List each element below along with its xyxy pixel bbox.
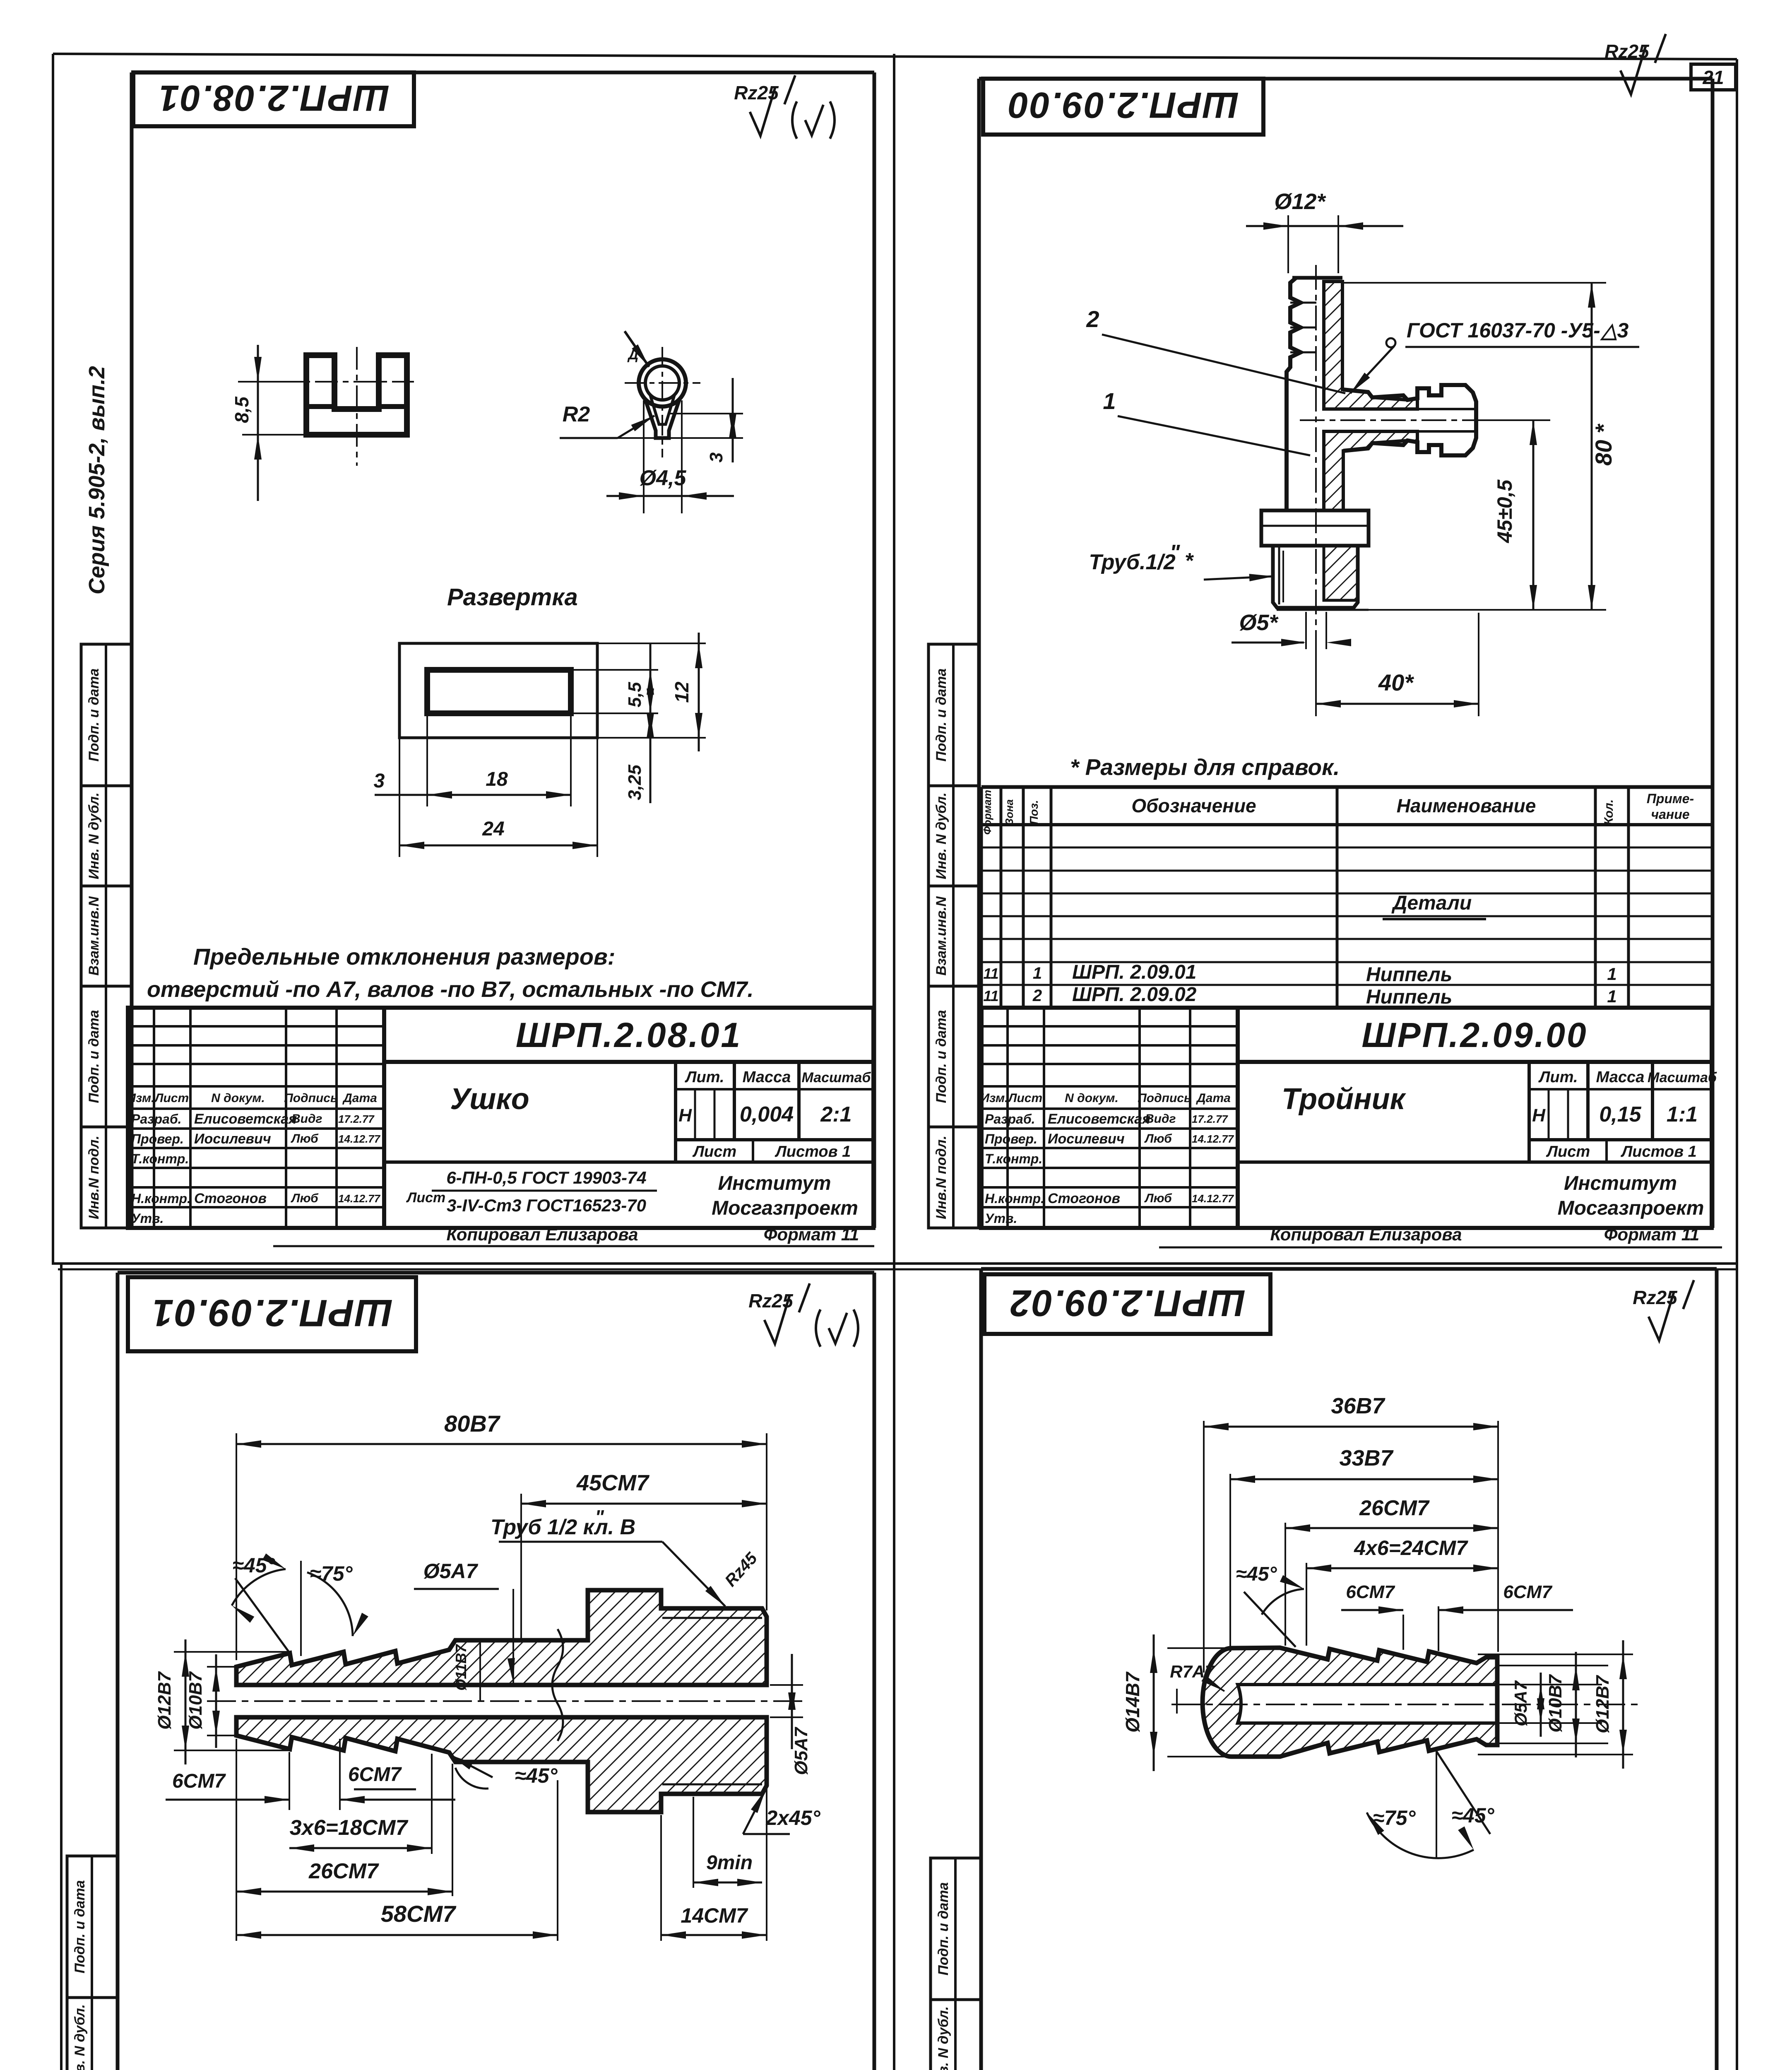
svg-text:Масса: Масса	[743, 1069, 791, 1086]
svg-text:△3: △3	[1600, 319, 1628, 342]
svg-text:Иосилевич: Иосилевич	[1048, 1131, 1125, 1147]
svg-text:Разраб.: Разраб.	[131, 1112, 182, 1126]
svg-text:ШРП.2.09.02: ШРП.2.09.02	[1009, 1282, 1245, 1324]
svg-text:Инв.N подл.: Инв.N подл.	[86, 1136, 102, 1219]
svg-text:Д: Д	[627, 347, 639, 363]
stamp box ШРП.2.08.01 rotated	[133, 72, 414, 126]
svg-text:ШРП.2.09.00: ШРП.2.09.00	[1361, 1016, 1588, 1054]
svg-text:Ниппель: Ниппель	[1366, 986, 1452, 1008]
svg-text:Масштаб: Масштаб	[802, 1070, 871, 1086]
svg-text:Дата: Дата	[1195, 1091, 1231, 1105]
svg-text:Масса: Масса	[1596, 1069, 1645, 1086]
tee threaded stub	[1273, 546, 1358, 608]
svg-text:Н: Н	[678, 1105, 692, 1126]
svg-text:17.2.77: 17.2.77	[338, 1113, 375, 1125]
stamp box ШРП.2.09.00 rotated	[983, 79, 1263, 135]
dim 6СМ7 pair	[289, 1752, 290, 1810]
svg-text:N докум.: N докум.	[1065, 1091, 1118, 1105]
svg-text:Развертка: Развертка	[447, 584, 578, 611]
svg-text:14.12.77: 14.12.77	[338, 1192, 381, 1205]
dim 58СМ7 and 14СМ7	[236, 1896, 237, 1941]
svg-text:Ø12В7: Ø12В7	[1592, 1675, 1613, 1733]
svg-text:6СМ7: 6СМ7	[1503, 1582, 1553, 1602]
svg-text:Видг: Видг	[1145, 1112, 1176, 1126]
svg-text:Ø4,5: Ø4,5	[640, 466, 687, 490]
svg-text:Листов 1: Листов 1	[775, 1143, 851, 1160]
dim Ø12В7	[174, 1651, 292, 1653]
svg-text:отверстий -по А7, валов -по В7: отверстий -по А7, валов -по В7, остальны…	[147, 977, 754, 1002]
svg-text:ГОСТ 16037-70 -У5-: ГОСТ 16037-70 -У5-	[1407, 319, 1600, 342]
svg-text:Изм.: Изм.	[980, 1091, 1008, 1105]
svg-text:Предельные отклонения размеров: Предельные отклонения размеров:	[193, 944, 615, 970]
dim 33В7	[1229, 1474, 1231, 1652]
tee vertical centerline	[1315, 265, 1317, 679]
svg-text:Н.контр.: Н.контр.	[131, 1191, 191, 1206]
dim 26СМ7	[1284, 1523, 1286, 1646]
svg-text:Подпись: Подпись	[284, 1091, 338, 1105]
svg-text:Копировал Елизарова: Копировал Елизарова	[1270, 1225, 1462, 1244]
svg-text:Мосгазпроект: Мосгазпроект	[712, 1197, 858, 1219]
dim 45±0,5	[1477, 419, 1550, 421]
svg-text:Подп. и дата: Подп. и дата	[933, 1010, 949, 1103]
svg-text:Лист: Лист	[1546, 1143, 1590, 1160]
title block TL	[128, 1008, 873, 1228]
svg-text:Люб: Люб	[1144, 1191, 1172, 1205]
svg-text:3: 3	[706, 453, 726, 462]
nipple centerline	[1171, 1704, 1639, 1705]
svg-text:2:1: 2:1	[820, 1102, 852, 1126]
svg-text:чание: чание	[1651, 807, 1689, 822]
margin attribute boxes TR	[928, 644, 979, 786]
nipple 09.02 section	[1203, 1648, 1497, 1757]
svg-text:Ø5А7: Ø5А7	[791, 1726, 811, 1775]
svg-text:Разраб.: Разраб.	[985, 1112, 1035, 1126]
svg-text:Наименование: Наименование	[1397, 795, 1536, 816]
dim 4х6=24СМ7	[1306, 1563, 1307, 1646]
svg-text:14.12.77: 14.12.77	[1192, 1133, 1234, 1145]
dim 26СМ7	[236, 1739, 237, 1896]
svg-text:14.12.77: 14.12.77	[338, 1133, 381, 1145]
svg-text:Подп. и дата: Подп. и дата	[936, 1882, 951, 1975]
svg-text:Лит.: Лит.	[684, 1069, 724, 1086]
svg-text:Ø10В7: Ø10В7	[185, 1671, 206, 1730]
svg-text:Лист: Лист	[1008, 1091, 1042, 1105]
svg-text:Копировал Елизарова: Копировал Елизарова	[446, 1225, 638, 1244]
svg-text:Кол.: Кол.	[1602, 799, 1616, 826]
svg-text:* Размеры для справок.: * Размеры для справок.	[1070, 754, 1340, 780]
svg-text:33В7: 33В7	[1339, 1446, 1394, 1471]
svg-text:Н: Н	[1532, 1105, 1546, 1126]
svg-text:5,5: 5,5	[625, 682, 645, 708]
svg-text:Труб.1/2: Труб.1/2	[1089, 550, 1175, 574]
svg-text:6СМ7: 6СМ7	[348, 1764, 402, 1786]
svg-text:3-IV-Ст3 ГОСТ16523-70: 3-IV-Ст3 ГОСТ16523-70	[447, 1196, 646, 1215]
svg-text:Подп. и дата: Подп. и дата	[72, 1880, 88, 1973]
dim 45СМ7	[520, 1494, 522, 1639]
svg-text:Изм.: Изм.	[127, 1091, 154, 1105]
svg-text:Утв.: Утв.	[131, 1211, 164, 1226]
svg-text:": "	[1170, 541, 1181, 565]
svg-text:Иосилевич: Иосилевич	[194, 1131, 271, 1147]
svg-text:11: 11	[983, 987, 998, 1004]
dim 9min	[693, 1797, 694, 1888]
svg-text:2х45°: 2х45°	[765, 1806, 820, 1829]
svg-text:Мосгазпроект: Мосгазпроект	[1558, 1197, 1704, 1219]
svg-text:Ø5А7: Ø5А7	[423, 1560, 479, 1583]
svg-text:Ушко: Ушко	[450, 1083, 529, 1116]
svg-text:Лист: Лист	[692, 1143, 736, 1160]
nipple centerline	[207, 1700, 807, 1702]
svg-text:1: 1	[1607, 987, 1616, 1006]
svg-text:≈75°: ≈75°	[310, 1562, 353, 1585]
svg-text:Люб: Люб	[1144, 1132, 1172, 1146]
svg-text:": "	[595, 1506, 604, 1528]
svg-text:Стогонов: Стогонов	[194, 1191, 267, 1206]
margin attribute boxes TL	[81, 644, 132, 786]
svg-text:ШРП.2.08.01: ШРП.2.08.01	[516, 1016, 742, 1054]
svg-text:45±0,5: 45±0,5	[1493, 479, 1516, 544]
svg-text:Ниппель: Ниппель	[1366, 964, 1452, 986]
svg-text:Институт: Институт	[718, 1172, 831, 1194]
page outer border	[53, 54, 1737, 59]
svg-text:26СМ7: 26СМ7	[1359, 1496, 1430, 1520]
svg-text:1: 1	[1033, 964, 1042, 982]
svg-text:24: 24	[482, 818, 504, 840]
svg-text:Обозначение: Обозначение	[1131, 795, 1256, 816]
svg-text:58СМ7: 58СМ7	[381, 1901, 457, 1927]
svg-text:2: 2	[1032, 987, 1042, 1005]
dim 40*	[1315, 640, 1317, 716]
svg-text:ШРП.2.08.01: ШРП.2.08.01	[158, 78, 389, 119]
dim 36В7	[1203, 1421, 1205, 1673]
angle arcs 75 45	[1436, 1751, 1437, 1859]
svg-text:Ø12В7: Ø12В7	[154, 1671, 175, 1730]
svg-text:36В7: 36В7	[1331, 1394, 1385, 1418]
svg-text:80 *: 80 *	[1590, 424, 1616, 466]
svg-text:Взам.инв.N: Взам.инв.N	[86, 896, 102, 976]
svg-text:Поз.: Поз.	[1027, 800, 1040, 824]
svg-text:Взам.инв.N: Взам.инв.N	[933, 896, 949, 976]
svg-text:Ø12*: Ø12*	[1274, 189, 1326, 214]
svg-text:Формат 11: Формат 11	[764, 1225, 859, 1244]
dim Ø5А7 right	[770, 1684, 803, 1686]
svg-text:Труб 1/2 кл. В: Труб 1/2 кл. В	[491, 1515, 635, 1539]
svg-text:Приме-: Приме-	[1647, 791, 1694, 806]
svg-text:Листов 1: Листов 1	[1620, 1143, 1697, 1160]
svg-text:R2: R2	[563, 402, 590, 426]
tee horizontal barb outlet	[1343, 385, 1476, 455]
svg-text:6-ПН-0,5 ГОСТ 19903-74: 6-ПН-0,5 ГОСТ 19903-74	[446, 1168, 646, 1187]
svg-text:3: 3	[374, 770, 385, 792]
svg-text:0,004: 0,004	[740, 1102, 794, 1126]
dim 80В7	[236, 1433, 237, 1660]
svg-text:ШРП. 2.09.01: ШРП. 2.09.01	[1072, 961, 1196, 983]
svg-text:1: 1	[1607, 964, 1616, 984]
margin attribute boxes BL	[67, 1856, 118, 1998]
svg-text:Утв.: Утв.	[985, 1211, 1017, 1226]
svg-text:Ø14В7: Ø14В7	[1122, 1671, 1143, 1733]
svg-text:Подп. и дата: Подп. и дата	[933, 668, 949, 761]
svg-text:Тройник: Тройник	[1282, 1083, 1407, 1116]
svg-text:12: 12	[671, 681, 693, 703]
tee vertical barb tube	[1287, 278, 1301, 510]
dim 80*	[1342, 282, 1606, 284]
svg-text:Провер.: Провер.	[131, 1131, 184, 1146]
svg-text:≈45°: ≈45°	[1236, 1563, 1277, 1585]
svg-text:Видг: Видг	[291, 1112, 322, 1126]
development rectangle	[399, 643, 597, 738]
svg-text:Н.контр.: Н.контр.	[985, 1191, 1044, 1206]
svg-text:Серия 5.905-2, вып.2: Серия 5.905-2, вып.2	[84, 366, 109, 595]
svg-text:Инв.N подл.: Инв.N подл.	[933, 1136, 949, 1219]
svg-text:0,15: 0,15	[1599, 1102, 1641, 1126]
dim Ø10В7	[1575, 1652, 1577, 1757]
svg-text:14СМ7: 14СМ7	[681, 1904, 748, 1927]
svg-text:Подп. и дата: Подп. и дата	[86, 668, 102, 761]
svg-text:Ø5*: Ø5*	[1239, 610, 1279, 635]
svg-text:ШРП. 2.09.02: ШРП. 2.09.02	[1072, 984, 1197, 1006]
dim Ø5А7	[1540, 1673, 1542, 1737]
svg-text:Ø5А7: Ø5А7	[1511, 1680, 1530, 1726]
page number box 21	[1691, 64, 1736, 90]
svg-text:Лист: Лист	[406, 1190, 445, 1206]
lug side view teardrop	[639, 359, 686, 407]
svg-text:1: 1	[1103, 388, 1116, 414]
svg-text:45СМ7: 45СМ7	[576, 1471, 650, 1495]
svg-text:Ø10В7: Ø10В7	[1545, 1674, 1566, 1733]
svg-text:Лист: Лист	[154, 1091, 189, 1105]
svg-text:1:1: 1:1	[1667, 1102, 1698, 1126]
svg-text:Провер.: Провер.	[985, 1131, 1037, 1146]
svg-text:N докум.: N докум.	[211, 1091, 265, 1105]
tee hex flange	[1261, 510, 1369, 546]
svg-text:Подп. и дата: Подп. и дата	[86, 1010, 102, 1103]
stamp box ШРП.2.09.02 rotated	[984, 1274, 1270, 1334]
svg-text:Люб: Люб	[291, 1132, 319, 1146]
sheet frame TL (ШРП.2.08.01 Ушко)	[132, 71, 874, 75]
svg-text:Формат 11: Формат 11	[1604, 1225, 1700, 1244]
svg-text:2: 2	[1086, 306, 1099, 332]
svg-text:Инв. N дубл.: Инв. N дубл.	[936, 2006, 951, 2070]
svg-text:Формат: Формат	[981, 790, 993, 835]
sheet frame BR (ШРП.2.09.02 Ниппель)	[981, 1267, 1717, 1271]
svg-text:4х6=24СМ7: 4х6=24СМ7	[1354, 1536, 1468, 1560]
svg-text:Инв. N дубл.: Инв. N дубл.	[86, 792, 102, 879]
stamp box ШРП.2.09.01 rotated	[128, 1277, 416, 1351]
svg-text:Инв. N дубл.: Инв. N дубл.	[933, 792, 949, 879]
svg-text:ШРП.2.09.01: ШРП.2.09.01	[151, 1292, 392, 1334]
svg-text:Детали: Детали	[1391, 892, 1472, 914]
dim 6СМ7 pair	[1402, 1615, 1404, 1650]
svg-text:*: *	[1185, 549, 1194, 573]
svg-text:8,5: 8,5	[231, 396, 253, 423]
svg-text:6СМ7: 6СМ7	[1346, 1582, 1395, 1602]
svg-text:11: 11	[983, 965, 998, 982]
weld leader ГОСТ 16037	[1386, 338, 1395, 347]
svg-text:80В7: 80В7	[444, 1410, 501, 1437]
svg-text:6СМ7: 6СМ7	[172, 1770, 226, 1792]
dim Ø5*	[1305, 612, 1307, 649]
svg-text:3х6=18СМ7: 3х6=18СМ7	[290, 1816, 409, 1840]
dim 3х6=18СМ7	[431, 1754, 433, 1854]
svg-text:ШРП.2.09.00: ШРП.2.09.00	[1007, 85, 1239, 126]
svg-text:26СМ7: 26СМ7	[308, 1859, 379, 1883]
svg-text:9min: 9min	[706, 1852, 753, 1874]
svg-text:Елисоветская: Елисоветская	[194, 1111, 297, 1127]
svg-text:Люб: Люб	[291, 1191, 319, 1205]
nipple 09.01 section	[236, 1590, 767, 1685]
svg-text:≈75°: ≈75°	[1373, 1806, 1416, 1829]
svg-text:40*: 40*	[1378, 669, 1414, 696]
svg-text:≈45°: ≈45°	[515, 1764, 558, 1787]
svg-text:Подпись: Подпись	[1138, 1091, 1191, 1105]
svg-text:Зона: Зона	[1003, 799, 1015, 826]
lug channel profile view	[306, 355, 407, 435]
dim Ø14В7	[1167, 1647, 1234, 1649]
svg-text:18: 18	[486, 768, 508, 790]
svg-text:Ø11В7: Ø11В7	[452, 1644, 469, 1690]
dim Ø10В7	[207, 1666, 240, 1668]
svg-text:Т.контр.: Т.контр.	[985, 1151, 1042, 1166]
svg-text:17.2.77: 17.2.77	[1192, 1113, 1228, 1125]
title block TR	[981, 1008, 1712, 1228]
parts table	[981, 785, 1713, 789]
margin attribute boxes BR	[931, 1858, 981, 2000]
svg-text:Лит.: Лит.	[1538, 1069, 1578, 1086]
dim Ø12В7	[1622, 1640, 1624, 1769]
svg-text:Т.контр.: Т.контр.	[131, 1151, 189, 1166]
tee section wall hatch	[1324, 282, 1417, 409]
svg-text:Дата: Дата	[342, 1091, 377, 1105]
dim Ø12*	[1287, 215, 1289, 273]
svg-text:Инв. N дубл.: Инв. N дубл.	[72, 2004, 88, 2070]
svg-text:Масштаб: Масштаб	[1648, 1070, 1717, 1086]
svg-text:3,25: 3,25	[625, 765, 645, 800]
svg-text:Институт: Институт	[1564, 1172, 1677, 1194]
svg-text:14.12.77: 14.12.77	[1192, 1192, 1234, 1205]
sheet frame TR (ШРП.2.09.00 Тройник)	[979, 77, 1713, 81]
sheet frame BL (ШРП.2.09.01 Ниппель)	[118, 1271, 874, 1275]
svg-text:Стогонов: Стогонов	[1048, 1191, 1120, 1206]
svg-text:Елисоветская: Елисоветская	[1048, 1111, 1150, 1127]
svg-text:≈45°: ≈45°	[1451, 1804, 1494, 1827]
